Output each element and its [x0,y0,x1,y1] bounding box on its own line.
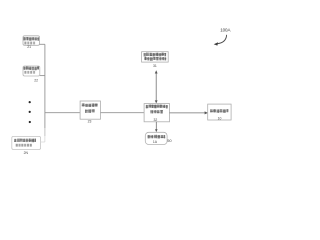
label inside touch box bottom [153,140,158,144]
block: scan signal output circuit N (box 2N) [12,136,41,149]
svg-text:31: 31 [153,64,157,68]
arrow: double-headed wire timing box to decode box [155,70,158,103]
label 31 under timing box [153,64,157,68]
ellipsis dot 2 [29,111,31,113]
svg-text:23: 23 [88,120,92,124]
label 100A [220,28,230,33]
label 10 inside panel box bottom [218,117,222,121]
label 21 under box 21 [27,45,31,49]
svg-text:21: 21 [27,45,31,49]
label 50 right of touch box [167,139,171,143]
wire: box 21 to bus [40,43,45,45]
label 23 under row drive box [88,120,92,124]
wire: box 2N to bus [41,141,45,143]
block: scan signal output circuit 2 (box 22) [23,66,40,76]
svg-text:50: 50 [167,139,171,143]
block: scan signal output circuit 1 (box 21) [23,36,40,46]
svg-text:1A: 1A [153,140,158,144]
ellipsis dot 1 [29,101,31,103]
ellipsis dot 3 [29,121,31,123]
arrow: curved pointer under 100A [214,35,227,46]
svg-text:100A: 100A [220,28,230,33]
label 2N under box 2N [24,151,29,155]
arrow: decode box to display panel [170,111,209,114]
block: row drive circuit (box 23) [80,101,100,119]
wire: bus fading tail [44,128,46,136]
label 22 under box 22 [34,78,38,82]
block: timing adjust circuit (box 31) [142,52,169,62]
wire: vertical bus joining scan circuits [44,44,46,128]
wire: decode box down to touch driver with arrowhead [155,122,158,132]
wire: row drive box to decode box [101,112,145,114]
svg-text:10: 10 [218,117,222,121]
svg-text:32: 32 [154,118,158,122]
block: touch driver (box 50) [145,132,167,144]
svg-text:22: 22 [34,78,38,82]
block: display panel (box 10) [208,104,231,120]
wire: box 22 to bus [40,75,45,77]
wire: bus to row drive box [45,112,80,114]
svg-text:2N: 2N [24,151,29,155]
label 32 inside decode box bottom [154,118,158,122]
block: decode output circuit (box 32) [144,104,169,122]
